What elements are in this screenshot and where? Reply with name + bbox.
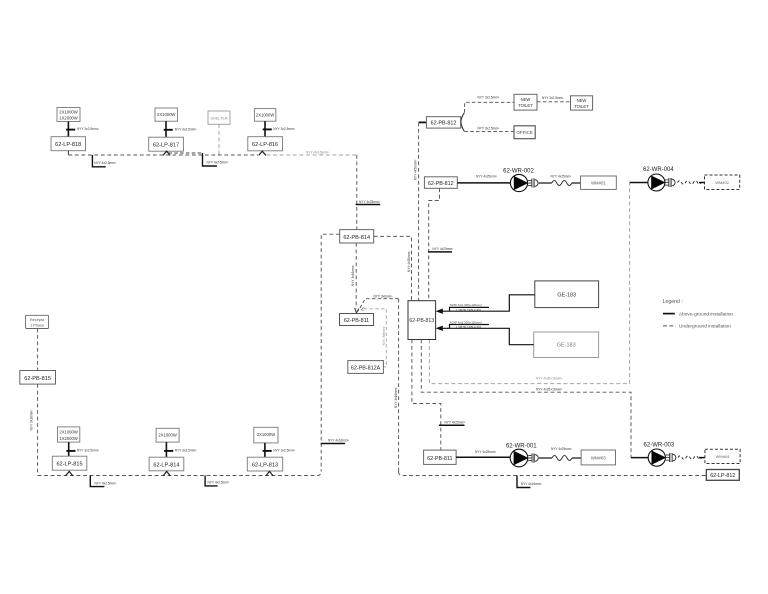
svg-text:GE-183: GE-183 bbox=[557, 292, 576, 298]
svg-text:NYY 4x2.5mm²: NYY 4x2.5mm² bbox=[94, 161, 116, 165]
flexible dash-dot squiggle bbox=[678, 456, 702, 460]
svg-text:62-PB-811: 62-PB-811 bbox=[344, 318, 369, 324]
connector plug WR-002 bbox=[528, 179, 538, 188]
box WM#04 dashed bbox=[705, 449, 740, 463]
wire drop load to 62-LP-815 bbox=[68, 442, 70, 456]
svg-text:62-LP-812: 62-LP-812 bbox=[710, 473, 735, 479]
wire branch caret to leader bbox=[169, 152, 203, 154]
arrowhead grey leader2 bbox=[361, 307, 364, 311]
load box 2X1000W/1X2000W above 62-LP-815 bbox=[58, 427, 80, 442]
svg-text:NYY 3x2.5mm²: NYY 3x2.5mm² bbox=[542, 96, 564, 100]
svg-text:1X2000W: 1X2000W bbox=[59, 436, 77, 441]
svg-text:62-LP-818: 62-LP-818 bbox=[55, 142, 81, 148]
svg-text:NYY 3x2.5mm²: NYY 3x2.5mm² bbox=[478, 127, 500, 131]
svg-text:TOILET: TOILET bbox=[518, 103, 533, 108]
generator GE-183 lower bbox=[534, 332, 599, 358]
svg-text:1X2000W: 1X2000W bbox=[59, 115, 77, 120]
wire to WM#02 bbox=[699, 182, 705, 184]
tick cable mark route C bbox=[439, 424, 465, 426]
svg-text:62-WR-001: 62-WR-001 bbox=[506, 444, 537, 450]
panel 62-LP-815 bbox=[52, 456, 87, 470]
svg-text:62-PB-812A: 62-PB-812A bbox=[351, 366, 381, 372]
box NEW TOILET 1 bbox=[514, 94, 537, 110]
junction caret under LP-815 bbox=[66, 471, 73, 476]
legend dashed line sample bbox=[663, 325, 676, 327]
wire feeder PB-812 down to PB-813 bbox=[418, 122, 420, 300]
leader 2 grey PB-811 to PB-812A bbox=[364, 309, 387, 367]
wire drop load to 62-LP-813 bbox=[264, 443, 266, 457]
panel 62-LP-813 bbox=[247, 457, 282, 471]
svg-text:NYY 4x25mm²: NYY 4x25mm² bbox=[475, 450, 496, 454]
wire Recepta to PB-815 bbox=[37, 329, 39, 371]
svg-text:2X1000W: 2X1000W bbox=[158, 433, 176, 438]
tick cable mark on left branch bbox=[321, 443, 345, 445]
svg-text:NYY 3x16mm²: NYY 3x16mm² bbox=[394, 387, 398, 408]
flexible dash-dot squiggle bbox=[678, 181, 702, 185]
box SHELTER bbox=[208, 111, 230, 124]
leader 1 from bus vertical to PB-811 with arrow bbox=[358, 299, 398, 311]
wire PB-811 to pump WR-001 bbox=[456, 456, 510, 458]
value label N2XF cable upper bbox=[450, 303, 490, 312]
load box 2X1000W above 62-LP-817 bbox=[155, 108, 178, 121]
svg-text:SHELTER: SHELTER bbox=[210, 117, 227, 121]
panel 62-LP-816 bbox=[248, 137, 283, 151]
flexible squiggle bbox=[552, 456, 572, 461]
legend solid line sample bbox=[663, 313, 675, 315]
svg-text:NYY 3x2.5mm²: NYY 3x2.5mm² bbox=[273, 449, 295, 453]
wire top bus grey segment bbox=[266, 154, 356, 156]
load box 2X1000W/1X2000W above 62-LP-818 bbox=[57, 108, 80, 122]
wire to pump WR-003 bbox=[631, 457, 648, 459]
svg-text:1 Phase: 1 Phase bbox=[30, 323, 44, 327]
generator GE-183 upper bbox=[535, 281, 599, 308]
svg-text:NYY 3x2.5mm²: NYY 3x2.5mm² bbox=[77, 449, 99, 453]
wire stub left of PB-812 bbox=[419, 121, 427, 123]
arrowhead into PB-813 lower bbox=[436, 326, 443, 331]
wire PB-814 bottom branch to PB-811 bbox=[355, 243, 357, 309]
svg-text:NEW: NEW bbox=[577, 98, 587, 103]
leader cable callout below bus 2 bbox=[205, 476, 218, 486]
panel 62-PB-812 lower bbox=[424, 177, 457, 189]
tick cable mark on LP-816 drop bbox=[263, 128, 272, 130]
load box 2X1000W above 62-LP-816 bbox=[254, 109, 276, 122]
leader cable callout below bus 3 solid bbox=[517, 476, 531, 488]
leader cable callout below bus 1 bbox=[90, 476, 104, 487]
wire to pump WR-004 bbox=[630, 182, 648, 184]
svg-text:62-PB-814: 62-PB-814 bbox=[343, 235, 370, 241]
wire LP-818 to bus bbox=[67, 151, 69, 155]
svg-text:62-LP-814: 62-LP-814 bbox=[153, 462, 179, 468]
tick cable mark bbox=[428, 251, 452, 253]
svg-text:NYY 3x16mm²: NYY 3x16mm² bbox=[29, 410, 33, 431]
value label N2XF cable lower bbox=[450, 320, 490, 329]
svg-text:2X1000W: 2X1000W bbox=[157, 112, 175, 117]
pump 62-WR-003 bbox=[648, 449, 666, 466]
load box 2X1000W above 62-LP-814 bbox=[156, 428, 179, 442]
svg-text:1.5MTR CABLE #02: 1.5MTR CABLE #02 bbox=[456, 325, 482, 329]
svg-text:NYY 4x16mm²: NYY 4x16mm² bbox=[521, 482, 542, 486]
svg-text:NEW: NEW bbox=[521, 97, 531, 102]
arrowhead into PB-811 top bbox=[355, 308, 359, 313]
svg-text:NYY (4x16)mm²: NYY (4x16)mm² bbox=[306, 151, 329, 155]
svg-text:NYY 3x2.5mm²: NYY 3x2.5mm² bbox=[478, 96, 500, 100]
panel 62-PB-813 bbox=[408, 301, 436, 340]
svg-text:NYY 4x50mm²: NYY 4x50mm² bbox=[413, 160, 417, 181]
svg-text:2X1000W: 2X1000W bbox=[256, 112, 274, 117]
arrowhead into PB-813 upper bbox=[436, 309, 443, 314]
svg-text:62-PB-815: 62-PB-815 bbox=[24, 376, 51, 382]
svg-text:62-LP-815: 62-LP-815 bbox=[56, 462, 82, 468]
svg-text:WM#04: WM#04 bbox=[716, 454, 731, 459]
wire bottom bus right segment bbox=[399, 472, 707, 476]
svg-text:NYY 3x6mm²: NYY 3x6mm² bbox=[374, 295, 393, 299]
tick cable mark on PB-814 feeder bbox=[356, 204, 381, 206]
flexible squiggle bbox=[552, 181, 572, 186]
svg-text:NYY 4x35+16mm²: NYY 4x35+16mm² bbox=[536, 377, 562, 381]
svg-text:2X1000W: 2X1000W bbox=[59, 430, 77, 435]
svg-text:Above-ground installation: Above-ground installation bbox=[679, 311, 733, 317]
wire route B PB-813 to WR-003 bbox=[421, 340, 631, 458]
svg-text:TOILET: TOILET bbox=[574, 104, 589, 109]
junction caret under LP-813 bbox=[266, 471, 273, 476]
wire branch up to NEW TOILET bbox=[464, 102, 514, 112]
wire PB-814 left branch bbox=[321, 234, 340, 471]
box WM#01 bbox=[581, 176, 617, 189]
panel 62-LP-814 bbox=[149, 457, 184, 471]
svg-text:WM#03: WM#03 bbox=[591, 455, 606, 460]
wire leader1 vertical down to bottom bus bbox=[398, 299, 400, 472]
wire SHELTER drop to bus bbox=[218, 124, 220, 155]
box OFFICE bbox=[514, 126, 535, 139]
panel 62-PB-814 bbox=[340, 230, 374, 243]
pump 62-WR-001 bbox=[510, 449, 528, 467]
junction caret under LP-816 bbox=[259, 151, 266, 155]
svg-text:62-LP-816: 62-LP-816 bbox=[252, 142, 278, 148]
svg-text:NYY 3x6mm²: NYY 3x6mm² bbox=[382, 326, 386, 345]
wire to flex bbox=[539, 182, 552, 184]
wire to flex bbox=[539, 457, 552, 459]
wire drop load to 62-LP-817 bbox=[165, 121, 167, 137]
wire flex to WM#01 bbox=[572, 182, 581, 184]
wire PB-812 to pump WR-002 bbox=[457, 182, 510, 184]
tick cable mark bbox=[164, 450, 173, 452]
svg-text:NYY 3x2.5mm²: NYY 3x2.5mm² bbox=[175, 449, 197, 453]
svg-text:NYY 4x2.5mm²: NYY 4x2.5mm² bbox=[208, 481, 230, 485]
box WM#03 bbox=[581, 450, 615, 465]
panel 62-LP-817 bbox=[149, 137, 184, 151]
brace bundle splitter bbox=[461, 113, 464, 131]
panel 62-PB-812A bbox=[348, 361, 384, 374]
box WM#02 dashed bbox=[705, 175, 740, 190]
panel 62-LP-812 bbox=[706, 470, 739, 481]
wire GE-183 upper to PB-813 bbox=[441, 295, 535, 311]
svg-text:WM#02: WM#02 bbox=[715, 180, 730, 185]
wire to WM#04 bbox=[699, 457, 705, 459]
tick cable mark bbox=[263, 450, 272, 452]
svg-text:NYY 4x35mm²: NYY 4x35mm² bbox=[407, 251, 411, 272]
svg-text:NYY 3x16mm²: NYY 3x16mm² bbox=[351, 265, 355, 286]
svg-text:NYY 4x25mm²: NYY 4x25mm² bbox=[433, 247, 454, 251]
svg-text:62-LP-817: 62-LP-817 bbox=[153, 143, 179, 149]
wire drop load to 62-LP-818 bbox=[67, 122, 69, 137]
svg-text:NYY 3x2.5mm²: NYY 3x2.5mm² bbox=[175, 127, 197, 131]
leader cable callout below bus at LP-817 bbox=[203, 153, 217, 166]
panel 62-PB-811 bottom bbox=[424, 450, 457, 464]
wire GE-183 lower to PB-813 bbox=[441, 328, 534, 344]
svg-text:62-WR-002: 62-WR-002 bbox=[503, 168, 534, 174]
leader cable callout below bus at LP-818 bbox=[92, 155, 105, 167]
svg-text:Underground installation: Underground installation bbox=[679, 324, 731, 330]
svg-text:62-PB-813: 62-PB-813 bbox=[409, 318, 434, 324]
svg-text:62-LP-813: 62-LP-813 bbox=[252, 463, 278, 469]
panel 62-PB-812 top bbox=[426, 117, 460, 128]
panel 62-PB-815 bbox=[20, 371, 56, 385]
svg-text:OFFICE: OFFICE bbox=[516, 130, 533, 135]
svg-text:62-WR-004: 62-WR-004 bbox=[643, 167, 674, 173]
svg-text:NYY 4x2.5mm²: NYY 4x2.5mm² bbox=[95, 481, 117, 485]
wire route PB-813 to WR-004 (underground, grey) bbox=[429, 183, 629, 384]
svg-text:2X1000W: 2X1000W bbox=[59, 109, 77, 114]
wire drop load to 62-LP-816 bbox=[264, 121, 266, 137]
svg-text:NYY 4x25mm²: NYY 4x25mm² bbox=[445, 420, 466, 424]
svg-text:Recepta: Recepta bbox=[30, 318, 45, 322]
wire branch down to OFFICE bbox=[464, 130, 514, 132]
svg-text:NYY 3x2.5mm²: NYY 3x2.5mm² bbox=[273, 127, 295, 131]
connector plug WR-004 bbox=[665, 178, 675, 187]
tick cable mark bbox=[66, 450, 75, 452]
svg-text:NYY 4x16mm²: NYY 4x16mm² bbox=[328, 439, 349, 443]
svg-text:NYY 4x25mm²: NYY 4x25mm² bbox=[359, 200, 380, 204]
panel 62-PB-811 middle bbox=[340, 314, 374, 326]
svg-text:62-PB-812: 62-PB-812 bbox=[431, 121, 457, 127]
wire drop load to 62-LP-814 bbox=[165, 442, 167, 457]
wire flex to WM#03 bbox=[572, 457, 581, 459]
wire bottom bus bbox=[38, 472, 322, 476]
connector plug WR-001 bbox=[528, 454, 538, 463]
wire PB-814 right branch to PB-813 bbox=[374, 236, 412, 300]
wire PB-815 down to bottom bus bbox=[37, 384, 39, 475]
svg-text:62-PB-811: 62-PB-811 bbox=[427, 456, 452, 462]
junction caret under LP-814 bbox=[163, 471, 170, 476]
svg-text:62-WR-003: 62-WR-003 bbox=[644, 443, 675, 449]
box Recepta 1 Phase bbox=[26, 315, 49, 328]
wire PB-812 lower down jog to PB-813 bbox=[429, 188, 440, 300]
tick cable mark on LP-818 drop bbox=[66, 129, 75, 131]
svg-text:GE-183: GE-183 bbox=[557, 342, 576, 348]
svg-text:62-PB-812: 62-PB-812 bbox=[428, 181, 454, 187]
svg-text:NYY 4x2.5mm²: NYY 4x2.5mm² bbox=[207, 160, 229, 164]
svg-text:NYY 3x2.5mm²: NYY 3x2.5mm² bbox=[77, 127, 99, 131]
wire bus corner down to 62-PB-814 bbox=[356, 155, 358, 230]
svg-text:NYY 4x35+16mm²: NYY 4x35+16mm² bbox=[536, 387, 562, 391]
wire NEW TOILET 1 to NEW TOILET 2 bbox=[537, 101, 571, 103]
svg-text:Legend :: Legend : bbox=[663, 299, 683, 305]
connector plug WR-003 bbox=[666, 453, 676, 462]
svg-text:N2XF 4x(1.300)+120mm²: N2XF 4x(1.300)+120mm² bbox=[450, 303, 482, 307]
tick cable mark on LP-817 drop bbox=[164, 129, 173, 131]
svg-text:NYY 4x25mm²: NYY 4x25mm² bbox=[551, 447, 572, 451]
pump 62-WR-004 bbox=[648, 174, 666, 191]
box NEW TOILET 2 bbox=[571, 96, 593, 110]
load box 2X1000W above 62-LP-813 bbox=[254, 427, 278, 443]
wire top bus dark segment bbox=[68, 154, 258, 156]
svg-text:WM#01: WM#01 bbox=[591, 181, 606, 186]
svg-text:N2XF 4x(1.300)+120mm²: N2XF 4x(1.300)+120mm² bbox=[450, 320, 482, 324]
junction caret under LP-817 bbox=[163, 151, 170, 155]
svg-text:NYY 4x25mm²: NYY 4x25mm² bbox=[476, 175, 497, 179]
svg-text:2X1000W: 2X1000W bbox=[257, 432, 275, 437]
svg-text:1.5MTR CABLE #01: 1.5MTR CABLE #01 bbox=[456, 308, 482, 312]
pump 62-WR-002 bbox=[510, 174, 528, 191]
wire route C PB-813 to PB-811 bottom bbox=[412, 340, 441, 451]
svg-text:NYY 4x25mm²: NYY 4x25mm² bbox=[551, 175, 572, 179]
panel 62-LP-818 bbox=[51, 137, 86, 151]
